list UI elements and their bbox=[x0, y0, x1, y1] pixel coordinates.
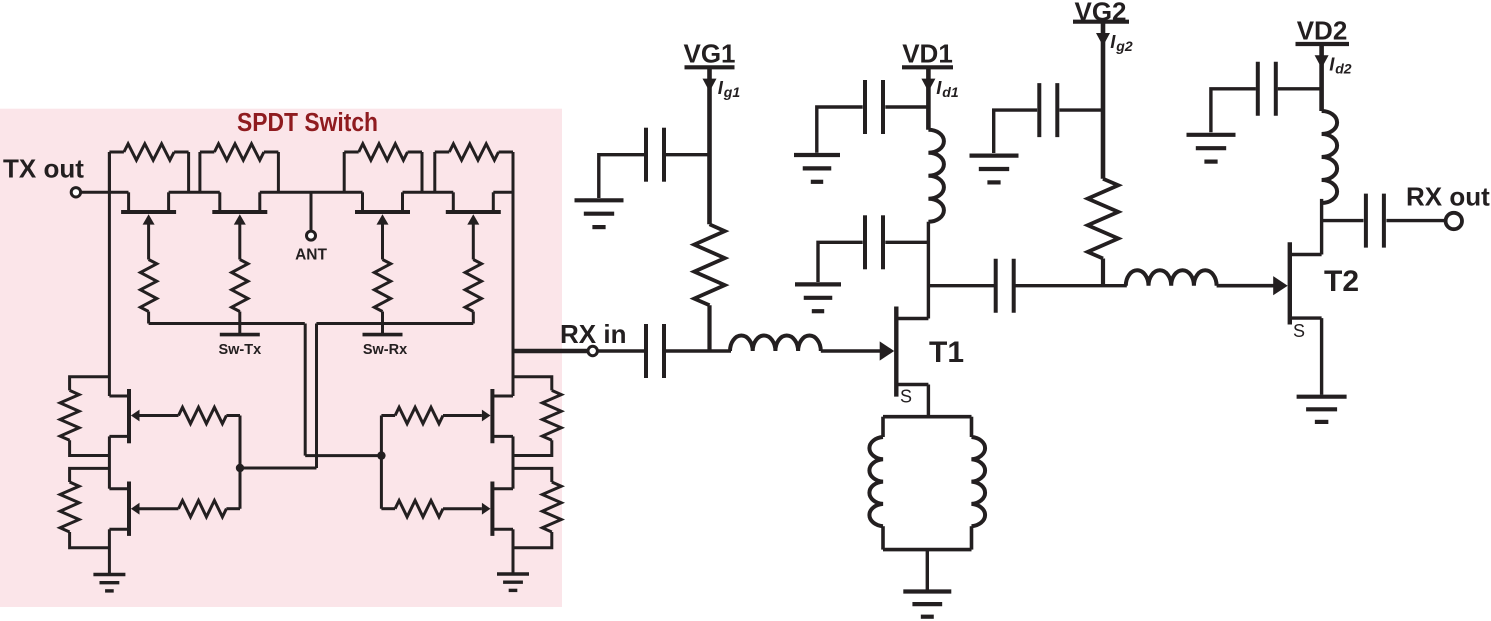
wire RX in to C1 bbox=[597, 349, 644, 352]
node RX gate junction bbox=[377, 451, 385, 459]
capacitor C2 VG1 bypass bbox=[599, 128, 710, 198]
wire M7-M8 gate join bbox=[380, 416, 383, 509]
ground G6 bbox=[903, 592, 951, 617]
svg-text:SPDT Switch: SPDT Switch bbox=[237, 109, 378, 137]
resistor R1 VG1 bbox=[694, 224, 725, 351]
wire L1 to T1 gate bbox=[821, 341, 894, 360]
wire T1 source down bbox=[927, 385, 930, 417]
port TX out terminal bbox=[71, 188, 80, 197]
label VG2 bbox=[1074, 0, 1126, 26]
capacitor C1 bbox=[646, 324, 664, 378]
gate resistor of M3 bbox=[374, 260, 390, 324]
gate resistor of M1 bbox=[140, 260, 156, 324]
wire C5 to VG2 node bbox=[1015, 284, 1126, 287]
svg-text:RX out: RX out bbox=[1406, 182, 1490, 212]
label T1 bbox=[929, 336, 964, 369]
wire VD1 down bbox=[926, 67, 931, 129]
svg-text:VD2: VD2 bbox=[1297, 16, 1348, 46]
wire RX branch vertical upper bbox=[512, 152, 515, 396]
label TX out bbox=[3, 154, 84, 184]
label RX in bbox=[560, 319, 626, 349]
wire C8 to RX out bbox=[1386, 219, 1446, 222]
node TX gate junction bbox=[236, 464, 244, 472]
wire TX branch vertical lower bbox=[108, 529, 111, 575]
port RX in terminal bbox=[588, 346, 597, 355]
ground G4 bbox=[970, 156, 1019, 183]
wire T2 drain up bbox=[1320, 199, 1323, 255]
shunt FET M8 bbox=[443, 482, 513, 536]
wire TX out to rail bbox=[81, 191, 129, 194]
wire VG2 down bbox=[1101, 22, 1106, 179]
wire rail FET4 to RX branch bbox=[493, 191, 513, 194]
wire M5-M6 gate join bbox=[239, 416, 242, 509]
svg-text:Sw-Rx: Sw-Rx bbox=[363, 342, 407, 358]
wire VG1 down bbox=[707, 67, 712, 224]
label Id2 bbox=[1329, 54, 1352, 77]
ground RX shunt bbox=[497, 574, 529, 590]
resistor across M8 bbox=[513, 468, 561, 547]
tank circuit top bbox=[883, 415, 972, 419]
gate resistor of M6 bbox=[179, 501, 241, 517]
resistor across M3 bbox=[344, 144, 422, 193]
gate resistor of M8 bbox=[381, 501, 443, 517]
svg-text:ANT: ANT bbox=[295, 247, 327, 264]
label VD1 bbox=[902, 39, 953, 69]
svg-text:g1: g1 bbox=[723, 84, 741, 100]
svg-text:S: S bbox=[900, 386, 912, 406]
shunt FET M6 bbox=[109, 482, 178, 536]
ground G3 bbox=[795, 284, 841, 311]
resistor across M1 bbox=[109, 144, 188, 193]
label VD2 bbox=[1297, 16, 1348, 46]
svg-text:S: S bbox=[1293, 321, 1305, 341]
label Sw-Tx bbox=[218, 342, 261, 358]
shunt FET M5 bbox=[109, 389, 178, 443]
wire RX branch vertical middle bbox=[512, 436, 515, 488]
transistor T2 bbox=[1290, 242, 1322, 324]
supply VD2 bar bbox=[1296, 42, 1350, 46]
current arrow Ig2 bbox=[1096, 33, 1110, 46]
capacitor C6 VG2 bypass bbox=[994, 83, 1103, 153]
svg-text:VG2: VG2 bbox=[1074, 0, 1126, 26]
ground TX shunt bbox=[93, 575, 125, 591]
svg-text:g2: g2 bbox=[1115, 38, 1133, 54]
label Ig2 bbox=[1110, 31, 1133, 54]
wire TX branch vertical middle bbox=[108, 436, 111, 488]
supply VD1 bar bbox=[902, 65, 953, 69]
wire C1 to gate node bbox=[666, 349, 731, 352]
svg-text:VG1: VG1 bbox=[683, 39, 735, 69]
svg-text:T1: T1 bbox=[929, 336, 964, 369]
series switch FET M1 bbox=[121, 192, 176, 259]
gate resistor of M4 bbox=[465, 260, 481, 324]
svg-text:d2: d2 bbox=[1335, 61, 1352, 77]
current arrow Ig1 bbox=[703, 79, 717, 92]
label RX out bbox=[1406, 182, 1490, 212]
svg-text:VD1: VD1 bbox=[902, 39, 953, 69]
wire T2 drain to C8 bbox=[1322, 219, 1364, 222]
resistor across M5 bbox=[60, 377, 109, 456]
supply VG2 bar bbox=[1073, 20, 1129, 24]
wire tank to ground bbox=[926, 550, 929, 590]
tank circuit bottom bbox=[883, 548, 972, 552]
port RX out terminal bbox=[1446, 213, 1462, 229]
wire Sw-Rx bus drop bbox=[240, 324, 317, 469]
terminal Sw-Rx bbox=[363, 324, 403, 335]
ground G7 bbox=[1297, 397, 1347, 422]
gate resistor of M2 bbox=[232, 260, 248, 324]
capacitor C8 bbox=[1366, 194, 1384, 248]
resistor across M2 bbox=[200, 144, 279, 193]
wire T1 drain to C5 bbox=[928, 284, 994, 287]
wire ANT stub bbox=[310, 192, 313, 231]
label Ig1 bbox=[718, 77, 741, 100]
transistor T1 bbox=[896, 307, 928, 397]
capacitor C7 VD2 bypass bbox=[1211, 62, 1322, 133]
svg-text:T2: T2 bbox=[1324, 265, 1359, 298]
inductor L3 bbox=[1126, 270, 1217, 286]
capacitor C3 VD1 bypass bbox=[817, 80, 929, 153]
label ANT bbox=[295, 247, 327, 264]
svg-text:TX out: TX out bbox=[3, 154, 84, 184]
capacitor C5 bbox=[996, 259, 1014, 313]
wire VD2 down bbox=[1319, 44, 1324, 111]
inductor L4 VD2 bbox=[1322, 111, 1338, 203]
current arrow Id2 bbox=[1315, 55, 1329, 68]
label T2 bbox=[1324, 265, 1359, 298]
resistor across M4 bbox=[435, 144, 513, 193]
label T2 S pin bbox=[1293, 321, 1305, 341]
wire Sw-Tx gate bus bbox=[149, 322, 305, 325]
ground G2 bbox=[794, 155, 840, 182]
resistor across M6 bbox=[60, 468, 109, 547]
shunt FET M7 bbox=[443, 389, 513, 443]
wire Sw-Rx gate bus bbox=[316, 322, 473, 325]
inductor L6 tank right bbox=[972, 417, 986, 550]
wire TX branch vertical upper bbox=[108, 152, 111, 396]
SPDT switch block background bbox=[0, 109, 562, 607]
wire rail FET3-FET4 bbox=[403, 191, 454, 194]
wire T2 source down bbox=[1320, 318, 1323, 395]
gate resistor of M5 bbox=[179, 407, 241, 423]
label Sw-Rx bbox=[363, 342, 407, 358]
ground G1 bbox=[575, 200, 624, 227]
inductor L2 VD1 bbox=[928, 130, 944, 222]
inductor L5 tank left bbox=[869, 417, 883, 550]
wire switch output to RX in bbox=[513, 349, 588, 354]
supply VG1 bar bbox=[685, 65, 735, 69]
series switch FET M2 bbox=[212, 192, 267, 259]
svg-text:RX in: RX in bbox=[560, 319, 626, 349]
svg-text:Sw-Tx: Sw-Tx bbox=[218, 342, 261, 358]
gate resistor of M7 bbox=[381, 407, 443, 423]
wire rail FET1-FET2 bbox=[169, 191, 220, 194]
wire Sw-Tx bus drop bbox=[305, 324, 381, 456]
terminal Sw-Tx bbox=[220, 324, 260, 335]
wire T1 drain up bbox=[927, 222, 930, 319]
label T1 S pin bbox=[900, 386, 912, 406]
label SPDT Switch bbox=[237, 109, 378, 137]
port ANT terminal bbox=[307, 231, 316, 240]
resistor R2 VG2 bbox=[1088, 179, 1119, 286]
wire L3 to T2 gate bbox=[1217, 276, 1288, 295]
resistor across M7 bbox=[513, 377, 561, 456]
current arrow Id1 bbox=[921, 79, 935, 92]
inductor L1 bbox=[730, 335, 821, 351]
series switch FET M4 bbox=[446, 192, 501, 259]
label Id1 bbox=[936, 77, 959, 100]
wire rail FET2-ANT-FET3 bbox=[260, 191, 363, 194]
series switch FET M3 bbox=[355, 192, 410, 259]
wire RX branch vertical lower bbox=[512, 529, 515, 575]
capacitor C4 drain bypass bbox=[818, 215, 928, 282]
svg-text:d1: d1 bbox=[942, 84, 959, 100]
label VG1 bbox=[683, 39, 735, 69]
ground G5 bbox=[1187, 135, 1236, 162]
